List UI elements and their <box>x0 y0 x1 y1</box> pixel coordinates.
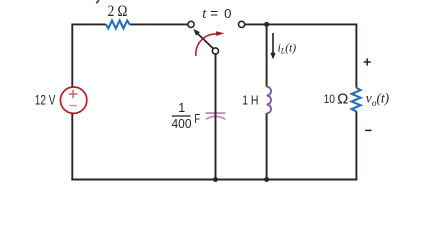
switch motion red arc <box>196 34 217 56</box>
stray mark top edge <box>96 0 99 3</box>
label + (output) <box>364 58 371 65</box>
junction node bottom capacitor <box>213 177 218 182</box>
svg-text:1 H: 1 H <box>242 94 258 108</box>
svg-text:1: 1 <box>178 101 185 115</box>
svg-text:10: 10 <box>324 94 335 106</box>
source plus sign <box>69 90 78 99</box>
svg-text:vo(t): vo(t) <box>366 91 390 109</box>
capacitor bottom curved plate <box>206 116 225 119</box>
wire right vertical lower <box>355 111 357 180</box>
wire left vertical upper <box>71 24 73 88</box>
wire top-left horizontal <box>71 23 106 25</box>
resistor 10Ω zigzag <box>352 88 361 112</box>
svg-text:t: t <box>202 6 207 22</box>
svg-text:400: 400 <box>172 117 192 131</box>
svg-text:F: F <box>194 111 200 126</box>
wire top middle (resistor to switch contact) <box>130 23 188 25</box>
svg-text:0: 0 <box>224 6 231 21</box>
switch contact circle left <box>188 21 194 27</box>
svg-text:iL(t): iL(t) <box>278 42 297 55</box>
switch contact circle right <box>239 21 245 27</box>
inductor 1H coil <box>267 87 271 114</box>
resistor 2Ω zigzag <box>106 21 130 29</box>
svg-text:Ω: Ω <box>337 90 348 107</box>
wire bottom horizontal <box>71 179 357 181</box>
label minus (output) <box>365 129 371 131</box>
svg-text:=: = <box>210 6 218 21</box>
switch pole circle lower <box>212 48 218 54</box>
wire top right horizontal <box>245 23 357 25</box>
voltage source 12V circle <box>60 87 86 113</box>
svg-text:2 Ω: 2 Ω <box>108 3 128 20</box>
current arrow iL(t) <box>272 33 274 54</box>
wire inductor branch upper <box>266 24 268 86</box>
capacitor top plate <box>206 112 226 114</box>
source minus sign <box>69 105 77 107</box>
svg-text:12 V: 12 V <box>35 93 56 108</box>
wire right vertical upper <box>355 24 357 88</box>
junction node top (inductor tap) <box>264 22 269 27</box>
junction node bottom inductor <box>264 177 269 182</box>
wire left vertical lower <box>71 113 73 180</box>
wire switch pole through capacitor to bottom <box>215 54 217 179</box>
switch blade with arrowhead <box>197 33 213 49</box>
wire inductor branch lower <box>266 113 268 179</box>
